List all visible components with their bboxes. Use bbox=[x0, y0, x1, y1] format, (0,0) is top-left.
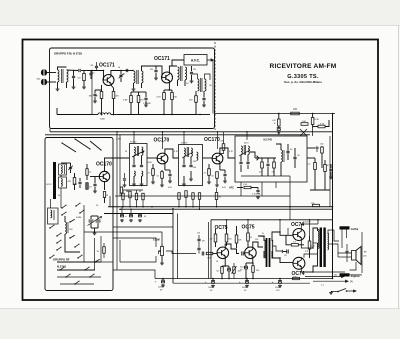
FM ratio transformer L6 bbox=[192, 74, 211, 92]
capacitor C22 speaker bbox=[345, 244, 348, 262]
resistor R30 4.25 bbox=[308, 236, 316, 258]
output transformer T5 bbox=[303, 222, 329, 273]
svg-text:100MF: 100MF bbox=[158, 287, 165, 289]
MW oscillator coil box bbox=[48, 199, 59, 224]
svg-text:µ.25: µ.25 bbox=[305, 251, 309, 253]
svg-text:47K: 47K bbox=[140, 100, 144, 102]
electrolytic C24 100MF bbox=[205, 279, 215, 292]
wire antenna to input transformer bbox=[47, 73, 56, 83]
wire band switch diagonal 1 bbox=[74, 138, 90, 149]
label cluster FM values bbox=[118, 67, 212, 105]
capacitor C21 bbox=[282, 250, 288, 254]
wire oc75b base bbox=[243, 253, 246, 255]
resistor R11 8.2K bbox=[311, 113, 319, 128]
wire agc down bbox=[310, 176, 330, 190]
ground C11 bbox=[202, 104, 206, 107]
label 105 bottom bbox=[293, 277, 300, 280]
ground C8 bbox=[144, 104, 148, 107]
ground R19 bbox=[151, 181, 155, 184]
ground volume bbox=[160, 262, 164, 265]
ground R20 bbox=[215, 184, 219, 187]
svg-text:15K: 15K bbox=[115, 96, 119, 98]
svg-text:OC170: OC170 bbox=[154, 138, 170, 144]
svg-text:15K: 15K bbox=[173, 97, 177, 99]
wire box verticals bbox=[61, 188, 101, 270]
wire det out down bbox=[289, 196, 291, 220]
resistor R15 bbox=[86, 164, 92, 180]
wire battery feed 2 bbox=[313, 280, 353, 283]
svg-text:50: 50 bbox=[144, 216, 146, 218]
switch S1k bbox=[69, 219, 75, 223]
svg-text:N.152: N.152 bbox=[46, 184, 52, 186]
label OC171 no.1 bbox=[99, 63, 115, 69]
wire if2 emitter bbox=[219, 164, 221, 171]
AGC resistors bbox=[308, 158, 330, 178]
audio outer loop wire bbox=[173, 209, 178, 283]
svg-text:100: 100 bbox=[256, 270, 259, 272]
wire conv emitter bbox=[104, 181, 106, 190]
speaker AP bbox=[352, 247, 368, 265]
capacitor C4 1N bbox=[90, 62, 98, 71]
transistor OC171 no.1 bbox=[103, 75, 114, 86]
capacitor C2 bbox=[67, 69, 88, 72]
wire conv collector bbox=[105, 158, 114, 172]
resistor R28 bbox=[252, 263, 255, 279]
resistor R8 bbox=[189, 91, 197, 107]
switch S1n bbox=[69, 235, 75, 239]
antenna coil box B bbox=[59, 177, 67, 188]
svg-text:Soc. p. Az. GELOSO-Milano: Soc. p. Az. GELOSO-Milano bbox=[284, 80, 322, 84]
wire emitter join bbox=[164, 89, 172, 91]
capacitor C18 bbox=[227, 266, 231, 279]
svg-text:500MF: 500MF bbox=[242, 287, 249, 289]
resistor R6 4.7K bbox=[156, 90, 165, 105]
svg-text:6.8K: 6.8K bbox=[123, 100, 128, 102]
resistor R5 47K bbox=[137, 92, 144, 107]
svg-text:5N: 5N bbox=[150, 69, 153, 71]
wire if rail taps bbox=[134, 132, 247, 149]
wire oc74b collector bbox=[301, 269, 313, 272]
svg-text:30: 30 bbox=[139, 191, 141, 193]
wire OC171-2 emitter bbox=[168, 83, 170, 91]
resistor R22 10K bbox=[206, 252, 213, 259]
svg-text:500: 500 bbox=[193, 167, 196, 169]
wire ground rail stub bbox=[173, 282, 310, 284]
svg-text:OC171: OC171 bbox=[99, 63, 115, 69]
ground R18 bbox=[160, 184, 164, 187]
svg-text:N.2742: N.2742 bbox=[57, 265, 66, 269]
wire if2 collector bbox=[220, 148, 235, 158]
svg-text:N.1957: N.1957 bbox=[181, 143, 188, 145]
svg-text:OC171: OC171 bbox=[154, 56, 170, 62]
ground C9 bbox=[154, 77, 158, 80]
label OC170 if1 bbox=[154, 138, 170, 144]
ground tuning gang bbox=[93, 232, 97, 235]
wire battery arrows bbox=[300, 271, 345, 273]
ground R21 bbox=[207, 181, 211, 184]
svg-text:0470: 0470 bbox=[148, 162, 152, 164]
svg-text:0.05: 0.05 bbox=[168, 187, 172, 189]
oscillator coil L2 bbox=[92, 113, 118, 121]
resistor R26 bbox=[216, 266, 223, 279]
wire L2 junction bbox=[101, 104, 115, 115]
label OC74 no.1 bbox=[291, 222, 304, 228]
IF transformer T1 N.1957 bbox=[130, 142, 148, 186]
svg-text:Vol: Vol bbox=[197, 233, 201, 235]
FM input transformer L1 bbox=[58, 67, 69, 88]
svg-text:N.1743: N.1743 bbox=[264, 138, 273, 142]
wire am ant top bbox=[61, 163, 71, 177]
label OC74 no.2 bbox=[292, 271, 305, 277]
capacitor C15 bbox=[168, 170, 171, 180]
wire am exit right bbox=[84, 232, 113, 262]
capacitor C14 341D bbox=[74, 178, 82, 188]
ground C12 bbox=[277, 131, 281, 134]
capacitor C7 bbox=[126, 69, 127, 72]
wire oc75a emitter bbox=[224, 258, 226, 266]
label 105 top right bbox=[311, 203, 320, 207]
wire pickup bbox=[350, 232, 363, 275]
resistor R33 bbox=[97, 243, 106, 258]
ground C5 bbox=[93, 100, 97, 103]
electrolytic C25 500MF bbox=[239, 279, 249, 292]
wire osc section bbox=[65, 216, 98, 252]
ground C13 bbox=[93, 190, 97, 193]
capacitor C27 bbox=[123, 173, 127, 187]
outer border frame bbox=[23, 40, 379, 301]
resistor R1 6.8K bbox=[77, 71, 85, 87]
wire routing loop A bbox=[113, 232, 162, 244]
thermistor NTC bbox=[232, 263, 241, 279]
detector components bbox=[241, 158, 290, 176]
decoupling electrolytics bbox=[120, 207, 146, 222]
wire emitter join3 bbox=[220, 169, 225, 171]
svg-text:100MF: 100MF bbox=[275, 287, 282, 289]
ground C1 bbox=[72, 86, 76, 89]
resistor R32 470 bbox=[220, 132, 225, 154]
wire interstage bbox=[121, 70, 133, 72]
switch S1i bbox=[77, 255, 82, 259]
switch S1e bbox=[56, 233, 61, 237]
ground R1 bbox=[82, 86, 86, 89]
svg-text:0.25M: 0.25M bbox=[153, 239, 160, 242]
svg-text:47: 47 bbox=[123, 74, 125, 76]
FM IF output transformer L4 bbox=[178, 66, 187, 86]
wire oc75b emitter bbox=[252, 258, 254, 263]
switch S1c bbox=[75, 203, 80, 207]
wire band switch diagonal 3 bbox=[90, 141, 102, 151]
A.F.C. box bbox=[184, 55, 207, 66]
svg-text:RICEVITORE AM-FM: RICEVITORE AM-FM bbox=[270, 63, 337, 70]
tuning gang capacitor bbox=[88, 216, 102, 232]
transistor OC170 no.2 bbox=[212, 153, 223, 164]
resistor R7 15K bbox=[171, 90, 178, 105]
wire oc74a collector bbox=[301, 240, 313, 248]
svg-text:105: 105 bbox=[334, 275, 337, 277]
wire jack bbox=[334, 230, 347, 249]
junction dots rails bbox=[112, 113, 333, 210]
wire emitter join2 bbox=[162, 170, 170, 172]
wire to OC171 base bbox=[87, 70, 104, 72]
capacitor C3 10 bbox=[89, 71, 95, 80]
label cluster AM values bbox=[58, 195, 109, 231]
svg-text:0.08M: 0.08M bbox=[76, 217, 82, 219]
resistor R24 13K bbox=[225, 226, 232, 246]
wire emitter join5 bbox=[246, 262, 254, 264]
ground L3a bbox=[132, 88, 136, 91]
AFC takeoff bbox=[229, 184, 260, 199]
switch S1d bbox=[79, 210, 84, 214]
wire battery feed 1 bbox=[305, 275, 344, 277]
wire T2 out bbox=[203, 157, 213, 159]
wire routing loop C bbox=[120, 240, 156, 262]
resistor R4 6.8K bbox=[123, 92, 132, 107]
switch S1a bbox=[61, 205, 66, 209]
resistor R16 bbox=[86, 183, 93, 190]
antenna coil box A bbox=[59, 164, 67, 175]
svg-text:1N: 1N bbox=[90, 65, 93, 67]
headphone jack Cuffia bbox=[340, 226, 359, 231]
ground L1 bbox=[56, 88, 60, 91]
svg-text:4.7K: 4.7K bbox=[156, 97, 161, 99]
resistor R27 bbox=[247, 226, 253, 247]
volume potentiometer 0.25M bbox=[153, 239, 164, 263]
svg-text:A.F.C.: A.F.C. bbox=[191, 59, 200, 63]
wire right cluster bbox=[313, 120, 329, 127]
svg-text:S 5.000A: S 5.000A bbox=[252, 193, 261, 196]
subtitle Soc. GELOSO Milano bbox=[284, 80, 322, 84]
ground battery switch bbox=[329, 292, 333, 295]
diode OA172 bbox=[315, 144, 324, 159]
FM interstage transformer L3 bbox=[134, 66, 151, 88]
detector caps right bbox=[286, 144, 300, 168]
wire mid rail 1 bbox=[108, 206, 333, 208]
svg-text:30: 30 bbox=[125, 151, 127, 153]
battery switch S2 bbox=[332, 289, 356, 293]
electrolytic C23 100MF bbox=[155, 279, 165, 292]
label cluster audio values bbox=[216, 239, 309, 272]
capacitor C20 50uF bbox=[240, 263, 248, 279]
wire OC171-1 collector bbox=[111, 71, 121, 76]
wire X crossing bbox=[300, 128, 313, 136]
T1 internals bbox=[132, 146, 144, 186]
wire IF supply rail A bbox=[50, 131, 333, 133]
resistor cluster above rail bbox=[122, 188, 222, 209]
wire OC171-2 base bbox=[150, 66, 162, 78]
wire mid rail 3 bbox=[104, 213, 173, 215]
svg-text:Cuffia: Cuffia bbox=[351, 227, 359, 231]
junction dots fm bbox=[91, 70, 279, 115]
svg-text:G.3305 TS.: G.3305 TS. bbox=[287, 74, 319, 80]
svg-text:50 µF: 50 µF bbox=[240, 267, 246, 269]
capacitor C13 bbox=[93, 177, 96, 191]
capacitor C8 bbox=[144, 92, 147, 104]
detector diode D1 bbox=[250, 152, 259, 160]
wire IF supply rail B bbox=[45, 134, 310, 136]
svg-text:47K: 47K bbox=[189, 100, 193, 102]
svg-text:10K: 10K bbox=[302, 121, 306, 123]
wire if1 collector bbox=[165, 149, 179, 158]
wire driver sec mid bbox=[272, 246, 283, 251]
electrolytic C26 100MF bbox=[272, 279, 282, 292]
label battery bbox=[321, 275, 337, 287]
wire FM out bbox=[196, 107, 210, 115]
wire if1 emitter bbox=[164, 164, 166, 171]
svg-text:8.2K: 8.2K bbox=[315, 119, 320, 121]
switch S1f bbox=[56, 240, 61, 244]
label 5.000A bbox=[252, 193, 261, 196]
svg-text:100K: 100K bbox=[100, 119, 106, 121]
wire AFC left bbox=[172, 60, 184, 66]
resistor R10 6.8K bbox=[272, 113, 280, 126]
detector out coil bbox=[276, 144, 284, 176]
resistor R12 10K bbox=[301, 121, 308, 125]
label OC171 no.2 bbox=[154, 56, 170, 62]
svg-text:GRUPPO RF: GRUPPO RF bbox=[53, 258, 70, 262]
capacitor C10 bbox=[190, 66, 196, 80]
label N.2742 bbox=[57, 265, 66, 269]
wire audio top taps bbox=[227, 220, 310, 236]
transistor OC74 no.1 bbox=[293, 229, 305, 241]
label OC170 converter bbox=[96, 162, 112, 168]
svg-text:1.5K: 1.5K bbox=[243, 184, 248, 186]
wire oc74 emitters bbox=[301, 224, 318, 258]
resistor R17 bbox=[103, 192, 105, 204]
FM antenna bbox=[37, 69, 48, 86]
driver transformer T4 N.1234 bbox=[258, 232, 280, 267]
resistor R2 1K bbox=[95, 85, 102, 104]
wire speaker bbox=[334, 244, 352, 257]
FM section dashed boundary bbox=[214, 42, 216, 130]
junction dots audio bbox=[162, 219, 333, 279]
svg-text:10: 10 bbox=[118, 67, 120, 69]
resistor R9 105 bbox=[291, 109, 300, 115]
svg-text:5N: 5N bbox=[89, 96, 92, 98]
switch S1j bbox=[94, 259, 100, 263]
ground C10 bbox=[190, 80, 194, 83]
wire T1 out bbox=[147, 157, 158, 159]
wire T1 in bbox=[113, 132, 130, 270]
wire R4 R5 top bbox=[131, 91, 146, 93]
wire FM signal line bbox=[91, 71, 93, 115]
wire left drops bbox=[110, 158, 113, 214]
coupling cap C17 bbox=[197, 233, 204, 256]
label GRUPPO F.M. N.2729 bbox=[54, 52, 82, 56]
resistor R31 bbox=[120, 187, 128, 196]
wire R6R7 gnd bbox=[160, 105, 196, 115]
wire oc74a base bbox=[280, 228, 293, 235]
AGC caps bbox=[329, 164, 333, 179]
resistor R23 bbox=[210, 229, 217, 247]
label 0.5M bbox=[116, 139, 121, 141]
wire speaker feed bbox=[328, 230, 334, 244]
detector box N.1743 bbox=[235, 136, 307, 182]
label cluster IF values bbox=[125, 151, 234, 189]
wire ground rail bottom bbox=[155, 278, 333, 280]
svg-text:500: 500 bbox=[193, 161, 196, 163]
svg-text:47: 47 bbox=[127, 191, 129, 193]
wire emitter join4 bbox=[222, 265, 229, 267]
wire rail drop left bbox=[49, 129, 51, 132]
FM tuner enclosure GRUPPO FM bbox=[50, 48, 215, 129]
label OC75 no.1 bbox=[215, 225, 228, 231]
label GRUPPO RF bbox=[53, 258, 70, 262]
IF transformer T2 N.1957 bbox=[179, 143, 203, 186]
wire box bottom links bbox=[57, 262, 101, 271]
switch S1l bbox=[49, 225, 54, 229]
svg-text:N.12974: N.12974 bbox=[303, 222, 311, 224]
transistor OC170 converter bbox=[99, 171, 109, 181]
svg-text:2N: 2N bbox=[193, 69, 196, 71]
transistor OC74 no.2 bbox=[293, 257, 305, 269]
wire am bottom row bbox=[57, 274, 101, 278]
svg-text:50: 50 bbox=[58, 195, 60, 197]
svg-text:.05: .05 bbox=[284, 255, 287, 257]
svg-text:1.4: 1.4 bbox=[321, 285, 324, 287]
resistor R25 12K bbox=[235, 226, 242, 248]
pickup jack bbox=[340, 273, 361, 278]
wire oc75a collector bbox=[225, 244, 239, 254]
svg-text:4.7K: 4.7K bbox=[320, 124, 325, 126]
svg-text:9V: 9V bbox=[350, 281, 353, 284]
switch S1b bbox=[61, 212, 66, 216]
capacitor C16 bbox=[223, 170, 226, 180]
wire am bottom row2 bbox=[60, 281, 94, 285]
audio enclosure bbox=[209, 220, 333, 279]
wire emitter rail bbox=[95, 90, 102, 91]
wire OC171-1 base bbox=[103, 71, 105, 81]
wire AFC right bbox=[207, 59, 214, 114]
wire AGC bus bbox=[115, 176, 290, 196]
tone capacitors bbox=[197, 235, 205, 254]
wire det to agc bbox=[307, 148, 322, 168]
wire B+ rail top bbox=[215, 113, 335, 115]
T2 internals bbox=[182, 147, 198, 186]
label OC170 if2 bbox=[204, 137, 220, 143]
svg-text:OC75: OC75 bbox=[215, 225, 228, 231]
label OC75 no.2 bbox=[242, 225, 255, 231]
subtitle G.3305 TS. bbox=[287, 74, 319, 80]
resistor R14 47K bbox=[67, 173, 75, 190]
wire FM box bottom bus bbox=[57, 108, 92, 115]
title RICEVITORE AM-FM bbox=[270, 63, 337, 70]
wire mid rail 2 bbox=[120, 208, 333, 210]
svg-text:0.05: 0.05 bbox=[222, 187, 226, 189]
transistor OC171 no.2 bbox=[162, 72, 173, 83]
wire oc74b base bbox=[280, 258, 293, 263]
switch S1g bbox=[56, 247, 61, 251]
wire OC171-2 collector bbox=[169, 66, 177, 73]
resistor R20 bbox=[211, 172, 218, 184]
wire right edge drop bbox=[317, 220, 319, 224]
resistor R21 bbox=[204, 164, 211, 181]
capacitor C1 bbox=[72, 70, 75, 86]
wire conv base bbox=[90, 176, 100, 178]
trimmer cap A bbox=[68, 163, 73, 173]
wire routing loop D bbox=[113, 226, 173, 228]
ferrite rod antenna bbox=[46, 162, 56, 199]
oscillator coil L5 bbox=[65, 216, 68, 240]
capacitor C19 bbox=[242, 252, 244, 256]
capacitor C11 bbox=[202, 91, 205, 104]
AM tuner enclosure GRUPPO RF bbox=[45, 138, 113, 291]
wire band switch diagonal 2 bbox=[61, 142, 76, 152]
svg-text:AFC: AFC bbox=[229, 187, 234, 190]
wire oc75a base bbox=[213, 253, 217, 255]
wire bottom left link bbox=[113, 270, 155, 279]
capacitor C5 5N bbox=[89, 90, 97, 100]
label 0470 bbox=[244, 143, 249, 145]
